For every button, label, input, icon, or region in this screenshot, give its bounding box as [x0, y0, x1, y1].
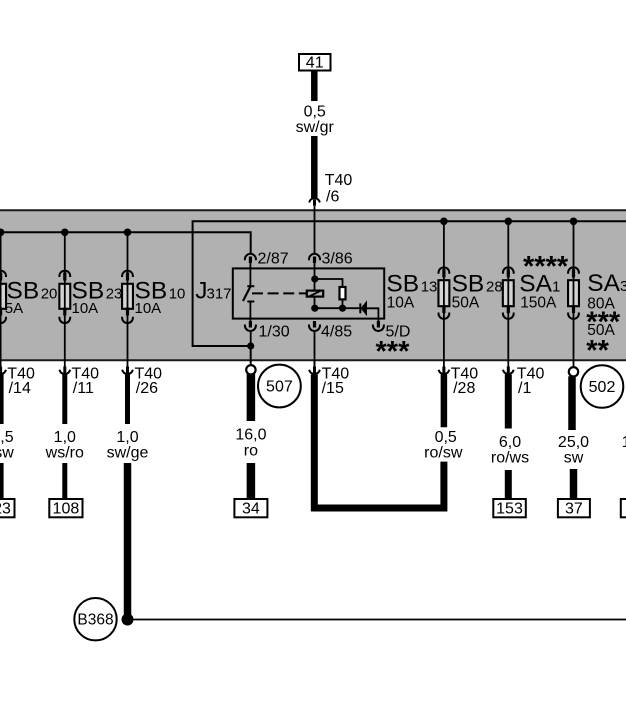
node plus connection (white) [246, 365, 255, 374]
fuse SB10 [122, 232, 133, 359]
svg-text:SB: SB [386, 270, 419, 297]
svg-text:153: 153 [496, 501, 523, 518]
label 0,5 sw/gr [296, 104, 335, 137]
node SB10 tap [124, 229, 132, 237]
node resistor bottom [339, 305, 346, 312]
svg-text:10A: 10A [387, 294, 415, 311]
svg-text:10: 10 [169, 286, 186, 303]
circle 507 [258, 365, 301, 408]
svg-text:23: 23 [0, 501, 11, 518]
svg-text:/14: /14 [9, 380, 31, 397]
svg-text:16,0: 16,0 [235, 427, 266, 444]
label T40/14 [7, 365, 35, 396]
svg-text:5A: 5A [5, 300, 23, 317]
node coil bottom [311, 305, 318, 312]
terminal box 34 [234, 499, 267, 518]
svg-text:13: 13 [421, 278, 438, 295]
fuse SA1 [568, 221, 579, 359]
svg-text:37: 37 [565, 501, 583, 518]
fuse SB23 [59, 232, 70, 359]
connector 4/85 [309, 321, 320, 331]
wire diode to 5/D [367, 308, 379, 322]
wire 16,0 ro lower [247, 463, 256, 499]
wire 3/86 to coil [314, 261, 316, 308]
svg-text:0,5: 0,5 [0, 429, 14, 446]
svg-text:2/87: 2/87 [258, 250, 289, 267]
svg-text:ro: ro [244, 443, 258, 460]
label 0,5 ro/sw [424, 429, 463, 462]
connector 2/87 [245, 254, 256, 263]
node 1/30 junction [247, 342, 254, 349]
connector 3/86 [309, 254, 320, 263]
label 1,0 sw/ge [107, 429, 149, 462]
svg-text:ro/ws: ro/ws [491, 449, 529, 466]
node coil top [311, 275, 318, 282]
wire 6,0 ro/ws lower [505, 470, 512, 499]
wire T40/15 to T40/28 U-run [314, 375, 444, 509]
svg-text:4/85: 4/85 [321, 324, 352, 341]
wire 1/30 down [250, 331, 252, 364]
wire from B368 junction to right [134, 619, 626, 621]
wire 1,0 ws/ro lower [62, 463, 67, 499]
svg-text:1/30: 1/30 [259, 324, 290, 341]
svg-text:28: 28 [486, 278, 503, 295]
svg-text:1: 1 [552, 278, 560, 295]
terminal box 23 [0, 499, 15, 518]
svg-text:/28: /28 [453, 380, 475, 397]
node B368 junction [122, 614, 134, 626]
svg-text:SA: SA [587, 270, 620, 297]
svg-text:16,: 16, [622, 434, 626, 451]
svg-text:108: 108 [53, 501, 80, 518]
wire 1,0 sw/ge lower to B368 [124, 463, 132, 620]
fuse SB13 [438, 221, 449, 359]
label T40/1 [517, 365, 545, 396]
svg-text:/15: /15 [322, 380, 344, 397]
svg-text:6,0: 6,0 [499, 434, 521, 451]
label SB20 5A [5, 278, 58, 317]
svg-text:50A: 50A [452, 294, 480, 311]
relay actuation dashed link [252, 292, 307, 294]
svg-text:41: 41 [306, 55, 324, 72]
svg-text:23: 23 [106, 286, 123, 303]
node SB20 tap [0, 229, 4, 237]
svg-text:/1: /1 [518, 380, 531, 397]
label T40/15 [322, 365, 350, 396]
svg-text:317: 317 [207, 286, 232, 303]
terminal box 37 [558, 499, 590, 518]
fuse SB20 [0, 232, 6, 359]
svg-text:3/86: 3/86 [322, 250, 353, 267]
wire 4/85 down [314, 331, 316, 367]
svg-text:1,0: 1,0 [116, 429, 138, 446]
terminal box 108 [49, 499, 82, 518]
svg-text:sw/ge: sw/ge [107, 445, 149, 462]
svg-text:sw/gr: sw/gr [296, 119, 335, 136]
wire 0,5 sw lower [0, 463, 4, 499]
svg-text:***: *** [376, 336, 411, 368]
node SB28 tap [505, 218, 513, 226]
label 0,5 sw [0, 429, 14, 462]
connector T40/11 [60, 360, 70, 375]
connector 5/D [373, 321, 384, 331]
terminal box 41 [299, 54, 331, 72]
relay contact 30-87 [243, 261, 254, 322]
svg-text:0,5: 0,5 [435, 429, 457, 446]
svg-text:/11: /11 [73, 380, 94, 397]
label T40/11 [72, 365, 100, 396]
svg-text:B368: B368 [77, 612, 113, 629]
svg-text:10A: 10A [72, 300, 99, 317]
connector T40/26 [123, 360, 133, 375]
node SB23 tap [61, 229, 69, 237]
svg-text:507: 507 [266, 379, 293, 396]
label 16,0 ro [235, 427, 266, 460]
circle B368 [74, 598, 116, 640]
svg-text:0,5: 0,5 [304, 104, 326, 121]
connector T40/28 [439, 360, 449, 375]
svg-text:**: ** [586, 335, 609, 367]
svg-text:25,0: 25,0 [558, 434, 589, 451]
wire 25,0 sw upper [568, 376, 576, 430]
label SB10 10A [135, 278, 186, 317]
connector T40/15 [310, 360, 320, 375]
terminal box 153 [493, 499, 526, 518]
label SB23 10A [72, 278, 123, 317]
diode [360, 302, 366, 315]
label J317 [195, 278, 231, 305]
terminal box partial right edge [621, 499, 626, 517]
svg-text:/26: /26 [136, 380, 158, 397]
gray bus band [0, 210, 626, 360]
wire resistor branch top [315, 279, 343, 287]
svg-text:SB: SB [452, 270, 485, 297]
svg-text:sw: sw [0, 445, 14, 462]
label 1,0 ws/ro [45, 429, 84, 462]
label SA1 150A [519, 270, 560, 311]
svg-text:502: 502 [589, 379, 616, 396]
connector 1/30 [245, 321, 256, 331]
wire 16,0 ro upper [247, 374, 256, 421]
circle 502 [581, 365, 624, 408]
svg-text:sw: sw [564, 449, 584, 466]
label T40/26 [135, 365, 163, 396]
J317 outer box [193, 221, 626, 346]
svg-text:ws/ro: ws/ro [45, 445, 84, 462]
svg-text:150A: 150A [520, 294, 557, 311]
connector T40/6 [310, 198, 320, 206]
node SA1 tap [570, 218, 578, 226]
svg-text:3: 3 [620, 278, 626, 295]
svg-text:34: 34 [242, 501, 260, 518]
left bus wire [0, 232, 251, 253]
label SA3 80A *** 50A ** [586, 270, 626, 367]
wire SA1 to connection 502 [573, 360, 575, 369]
connector T40/1 [503, 360, 513, 375]
wire 25,0 sw lower [570, 469, 578, 499]
svg-text:1,0: 1,0 [54, 429, 76, 446]
wire 0,5 ro/sw upper [441, 375, 448, 428]
wire 0,5 sw/gr upper segment [311, 71, 318, 102]
label T40/28 [451, 365, 479, 396]
wire into band [314, 206, 316, 254]
svg-text:10A: 10A [135, 300, 162, 317]
relay coil [307, 291, 323, 297]
svg-text:SA: SA [519, 270, 552, 297]
label SB28 50A [452, 270, 503, 311]
wire 1,0 sw/ge upper [125, 375, 130, 425]
node plus connection 502 (white) [569, 367, 578, 376]
wire 0,5 sw upper [0, 375, 4, 425]
label SB13 10A [386, 270, 437, 311]
wire 6,0 ro/ws upper [505, 375, 512, 429]
label 25,0 sw [558, 434, 589, 467]
resistor [340, 287, 346, 299]
connector T40/14 [0, 360, 6, 375]
wire 0,5 sw/gr lower segment [311, 136, 318, 198]
wire resistor bottom [342, 299, 344, 308]
label T40/6 [325, 172, 353, 206]
node SB13 tap [440, 218, 448, 226]
wire coil bottom to diode [315, 307, 360, 309]
svg-text:/6: /6 [326, 189, 339, 206]
wire 1,0 ws/ro upper [62, 375, 67, 425]
wire 1/30 to connection 507 [250, 346, 252, 366]
svg-text:20: 20 [41, 286, 58, 303]
svg-text:T40: T40 [325, 172, 353, 189]
fuse SB28 [503, 221, 514, 359]
relay J317 inner box [233, 268, 384, 318]
svg-text:ro/sw: ro/sw [424, 445, 463, 462]
label 6,0 ro/ws [491, 434, 529, 467]
